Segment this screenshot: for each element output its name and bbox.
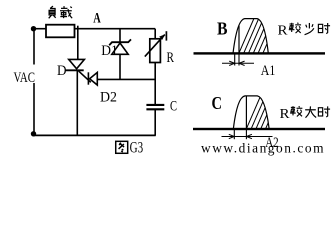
svg-text:D: D [57, 63, 67, 79]
terminal node bottom-left [31, 131, 36, 136]
waveform C firing chord [245, 96, 247, 129]
diode D2 cathode bar [87, 72, 89, 84]
wire D2 to RC node [97, 78, 155, 80]
wire top horizontal (load to R corner) [75, 28, 156, 30]
wire bottom horizontal [34, 134, 156, 136]
svg-text:C: C [170, 98, 177, 114]
dimension line C [222, 136, 273, 138]
dimension arrowhead B left [229, 61, 234, 65]
svg-text:www.diangon.com: www.diangon.com [201, 141, 324, 156]
svg-text:R: R [278, 24, 289, 39]
wire capacitor to bottom [154, 110, 156, 136]
svg-text:G3: G3 [130, 140, 144, 157]
wire left vertical upper segment [33, 31, 35, 65]
dimension line B [222, 62, 254, 64]
caption 图G3 [116, 141, 128, 153]
capacitor C top plate [146, 104, 164, 106]
waveform hump B outline [233, 19, 268, 54]
waveform hump C hatch clip left edge [233, 96, 269, 129]
waveform hump B hatch [238, 19, 283, 56]
svg-text:A: A [93, 11, 101, 27]
rheostat R arrowhead [159, 34, 165, 40]
wire R bottom to capacitor [154, 63, 156, 105]
firing tick C left [233, 129, 235, 139]
dimension arrowhead C right [247, 134, 252, 138]
firing tick B right (chord extension) [238, 54, 240, 66]
wire left vertical lower segment [33, 83, 35, 132]
wire anode branch vertical at node A [77, 26, 79, 60]
rheostat R arrow diagonal [145, 35, 165, 57]
wire top-left horizontal to load [34, 28, 47, 30]
load resistor box [46, 25, 75, 38]
wire D1 branch vertical from top wire [119, 29, 121, 42]
svg-text:C: C [212, 93, 223, 113]
waveform B firing chord [238, 26, 240, 54]
wire top-right corner down to R [154, 29, 156, 39]
wire cathode down to bottom [76, 70, 78, 135]
axis line C [193, 128, 325, 130]
svg-text:B: B [217, 19, 228, 39]
capacitor C bottom plate [146, 108, 164, 110]
zener D1 cathode bar [109, 39, 131, 45]
diode D2 triangle [90, 72, 98, 85]
label 负载 above load [49, 6, 56, 18]
thyristor D triangle [69, 59, 85, 68]
dimension arrowhead C left [229, 134, 234, 138]
axis line B [194, 52, 326, 54]
firing tick B left [234, 54, 236, 66]
gate wire diagonal [79, 71, 91, 82]
svg-text:R: R [280, 107, 291, 122]
thyristor D cathode bar [65, 69, 84, 71]
svg-text:R: R [167, 50, 175, 66]
svg-text:D2: D2 [100, 90, 117, 106]
svg-text:VAC: VAC [14, 70, 36, 86]
rheostat R arrow tip bar [165, 31, 167, 40]
zener D1 triangle [112, 43, 128, 54]
svg-text:D1: D1 [101, 43, 118, 59]
terminal node top-left [31, 26, 36, 31]
wire D1 anode down to gate line [119, 54, 121, 79]
waveform hump C hatch [245, 95, 285, 132]
firing tick C right [245, 129, 247, 139]
dimension arrowhead B right [239, 61, 245, 65]
svg-text:A1: A1 [261, 63, 276, 79]
rheostat R box [150, 39, 161, 63]
